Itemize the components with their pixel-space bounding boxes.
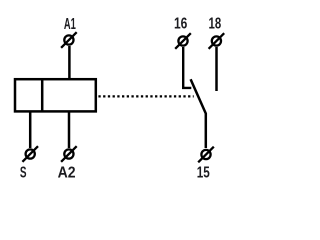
svg-text:S: S (20, 163, 27, 181)
svg-text:A2: A2 (58, 165, 76, 182)
svg-text:16: 16 (174, 14, 188, 32)
svg-text:18: 18 (209, 15, 222, 32)
svg-text:15: 15 (197, 164, 210, 181)
svg-text:A1: A1 (64, 14, 76, 32)
